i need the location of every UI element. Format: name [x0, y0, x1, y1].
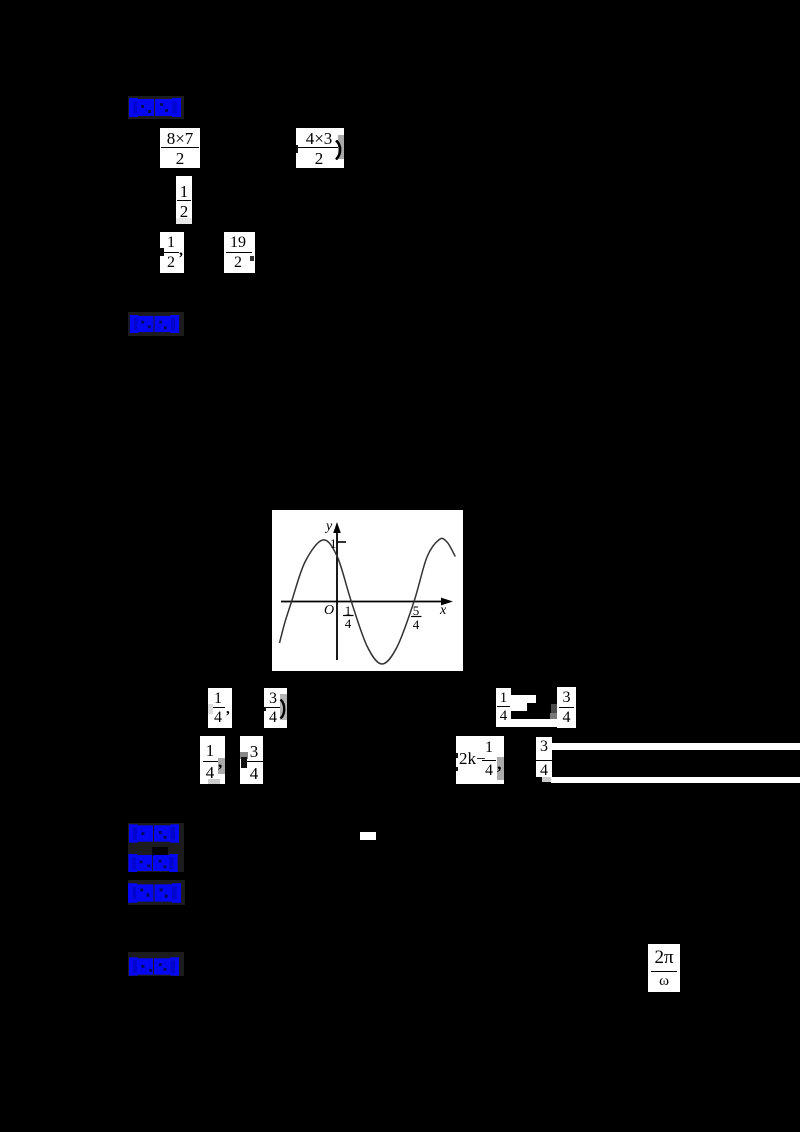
x label	[440, 603, 446, 619]
black notch between C and D	[152, 847, 168, 856]
equation image 1/2,	[160, 232, 184, 273]
label F blue text blob	[129, 957, 179, 976]
1/4 label	[342, 603, 354, 619]
label D blue text blob	[128, 854, 178, 872]
row2 right: 3/4 with long strips	[536, 737, 552, 777]
graph figure	[272, 510, 463, 671]
label B backing	[128, 312, 184, 336]
fraction bars for 1/4 and 5/4	[343, 615, 354, 617]
label E backing	[128, 880, 185, 905]
row1 right: 3/4,	[557, 687, 576, 728]
y label	[326, 519, 332, 535]
curve	[280, 538, 456, 664]
gray patch below 3/4	[542, 777, 551, 782]
equation image 19/2	[224, 232, 255, 273]
equation image 4x3/2 with paren	[296, 128, 344, 168]
row2 right: 2k-1/4,	[456, 736, 504, 784]
row2: +3/4	[240, 736, 263, 784]
label C+D backing	[128, 823, 184, 872]
tick y=1	[337, 541, 346, 543]
white dash	[360, 832, 376, 840]
white strip 1	[552, 743, 800, 750]
label A blue text blob	[129, 98, 181, 117]
dark plus mark	[551, 704, 559, 713]
equation image 8x7/2	[160, 128, 200, 168]
label C blue text blob	[129, 824, 179, 843]
label A backing	[128, 96, 184, 119]
label F backing	[128, 952, 184, 976]
white strip 2	[551, 777, 800, 783]
equation image 1/2	[176, 176, 192, 224]
label B blue text blob	[129, 315, 180, 333]
white extension steps	[511, 695, 536, 703]
1 label	[330, 536, 337, 552]
label E blue text blob	[128, 883, 181, 903]
row1: 1/4,	[208, 688, 232, 728]
5/4 label	[410, 603, 422, 619]
equation image 2pi/omega	[648, 944, 680, 992]
row1: 3/4)	[264, 688, 287, 728]
row2: 1/4,	[200, 736, 225, 784]
row1 right: 1/4 with white steps	[496, 688, 511, 727]
y-axis	[336, 530, 338, 660]
O label	[324, 603, 334, 619]
x-axis	[281, 601, 444, 603]
